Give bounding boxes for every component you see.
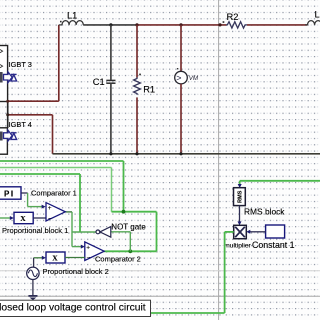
IGBT4 symbol glyph: [4, 130, 17, 141]
svg-text:C1: C1: [93, 77, 105, 87]
arrow into comparator1 plus input: [42, 205, 46, 209]
wire Constant1 to multiplier: [250, 231, 266, 233]
wire IGBT3 to IGBT4 (black vertical bus): [7, 102, 9, 129]
svg-text:closed loop voltage control ci: closed loop voltage control circuit: [0, 302, 146, 313]
svg-text:Comparator 2: Comparator 2: [95, 255, 141, 264]
svg-text:NOT gate: NOT gate: [111, 222, 146, 231]
wire comparator1 output: [65, 212, 81, 247]
green wire W (NOT gate output to left edge): [0, 174, 80, 232]
resistor R2: [218, 21, 247, 28]
svg-text:+: +: [86, 244, 90, 251]
svg-text:Proportional block 1: Proportional block 1: [2, 226, 68, 235]
svg-text:+: +: [48, 205, 52, 212]
wire PI output to comparator1: [21, 193, 42, 207]
NOT gate: [96, 227, 111, 238]
arrow into X2: [42, 256, 46, 260]
green wire B: [0, 168, 112, 212]
PI block: [0, 187, 21, 199]
wire top rail maroon segment: [137, 24, 227, 26]
page boundary horizontal line: [0, 295, 320, 297]
wire X1 to comparator1 minus: [33, 217, 46, 219]
wire top rail black segment: [83, 24, 137, 26]
gain block X1: [14, 212, 33, 223]
annotation box closed loop voltage control circuit: [0, 300, 151, 316]
svg-text:L1: L1: [67, 10, 77, 20]
voltage measurement VM wire upper: [180, 25, 182, 72]
capacitor C1 branch wire upper: [110, 25, 112, 80]
svg-text:RMS: RMS: [237, 190, 243, 203]
node bottom VM: [179, 152, 182, 155]
arrow into RMS block: [238, 184, 242, 188]
arrow into multiplier: [238, 221, 242, 225]
wire X2 to comparator2 minus: [65, 257, 85, 259]
op-amp comparator 2: [85, 242, 104, 262]
resistor R1 branch wire lower: [136, 97, 138, 153]
ground: [28, 296, 37, 300]
svg-text:IGBT 4: IGBT 4: [9, 120, 32, 129]
arrow into X1: [10, 216, 14, 220]
wire AC source to ground: [32, 280, 34, 296]
IGBT4 block box: [0, 128, 7, 154]
svg-text:RMS block: RMS block: [244, 207, 285, 217]
junction green A/H: [122, 210, 126, 214]
arrow into multiplier right: [246, 230, 250, 234]
svg-text:−: −: [48, 216, 52, 223]
capacitor C1 plates: [106, 80, 115, 83]
junction on bus: [6, 113, 9, 116]
VM top tick: [177, 68, 178, 69]
R1 top tick: [139, 74, 141, 76]
RMS block: [234, 188, 246, 206]
svg-text:>: >: [176, 73, 181, 83]
svg-text:−: −: [87, 255, 91, 262]
node bottom C1: [109, 152, 112, 155]
wire maroon: lower branch to bottom rail: [8, 115, 53, 154]
svg-text:PI: PI: [4, 189, 15, 198]
voltage measurement VM wire lower: [180, 84, 182, 154]
wire into X1 from left edge: [0, 217, 10, 219]
op-amp comparator 1: [46, 203, 65, 223]
green wire A (gate feedback to left edge): [0, 161, 124, 212]
voltage measurement VM circle: [175, 71, 188, 84]
green wire multiplier output loop: [0, 232, 234, 313]
junction green NOT input: [128, 249, 132, 253]
svg-text:Proportional block 2: Proportional block 2: [43, 267, 109, 276]
green wire comparator2 output: [104, 250, 157, 252]
wire sine source to X2: [34, 258, 42, 267]
green wire H (cross link): [112, 212, 157, 252]
svg-text:R2: R2: [227, 12, 239, 22]
green wire NOT gate output to junction: [72, 231, 96, 233]
svg-text:L2: L2: [315, 10, 320, 20]
node top R1: [135, 23, 138, 26]
arrow into comparator2 plus input: [81, 245, 85, 249]
svg-text:X: X: [52, 254, 58, 263]
IGBT3 symbol glyph: [4, 72, 17, 83]
svg-text:Constant 1: Constant 1: [252, 240, 295, 250]
capacitor C1 branch wire lower: [110, 84, 112, 154]
svg-text:multiplier: multiplier: [224, 243, 251, 250]
wire maroon: IGBT node to L1 (up at x=58.8): [8, 25, 59, 101]
svg-text:VM: VM: [189, 75, 199, 82]
resistor R1 zigzag: [134, 77, 141, 94]
resistor R1 branch wire upper: [136, 25, 138, 78]
node top VM: [179, 23, 182, 26]
junction at IGBT node: [6, 100, 9, 103]
bottom rail wire: [53, 153, 320, 155]
page boundary horizontal line faint: [0, 270, 320, 272]
multiplier block: [234, 225, 247, 238]
IGBT3 block box: [0, 46, 8, 102]
svg-text:X: X: [20, 214, 26, 223]
Constant 1 block: [266, 225, 285, 238]
svg-text:R1: R1: [143, 85, 155, 95]
node bottom R1: [135, 152, 138, 155]
gain block X2: [46, 252, 65, 263]
green wire NOT gate input: [111, 232, 131, 252]
node top C1: [109, 23, 112, 26]
page boundary vertical line: [218, 0, 220, 320]
svg-text:Comparator 1: Comparator 1: [31, 189, 77, 198]
svg-text:IGBT 3: IGBT 3: [9, 60, 32, 69]
inductor L2: [305, 21, 320, 25]
green wire into RMS block from right edge: [240, 181, 320, 185]
AC source sine: [27, 267, 39, 279]
wire RMS to multiplier: [239, 206, 241, 222]
inductor L1: [59, 21, 83, 25]
wire maroon R2 to L2: [247, 24, 308, 26]
